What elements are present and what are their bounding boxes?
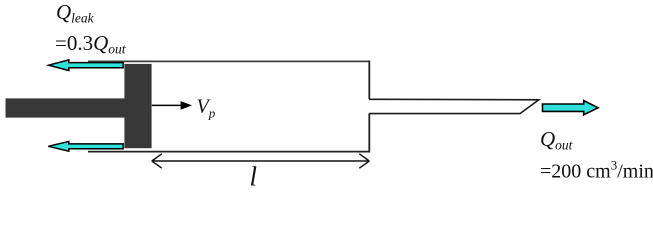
cylinder right wall lower segment (368, 114, 370, 153)
svg-text:Vp: Vp (197, 96, 216, 121)
piston (124, 64, 151, 148)
svg-text:=200 cm3/min: =200 cm3/min (540, 157, 653, 182)
outlet channel with beveled tip (369, 99, 539, 113)
svg-text:=0.3Qout: =0.3Qout (55, 31, 127, 57)
svg-text:Qout: Qout (540, 127, 574, 153)
svg-text:Qleak: Qleak (56, 0, 95, 26)
cylinder bottom wall (88, 151, 370, 153)
svg-text:l: l (250, 162, 258, 192)
piston velocity arrow Vp (152, 101, 192, 110)
stroke length dimension line with arrowheads (152, 154, 369, 168)
cylinder top wall (88, 60, 370, 62)
leak arrow top (cyan, pointing left) (49, 60, 124, 71)
leak arrow bottom (cyan, pointing left) (48, 141, 123, 151)
outflow arrow right (cyan, pointing right) (543, 101, 599, 115)
cylinder right wall upper segment (368, 61, 370, 100)
piston rod (6, 98, 126, 117)
